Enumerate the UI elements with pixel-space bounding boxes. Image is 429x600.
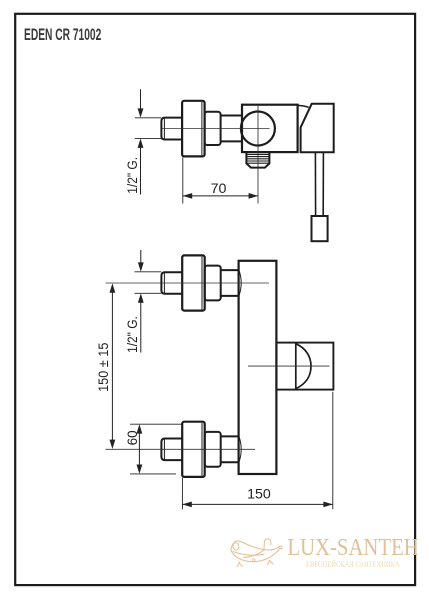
svg-text:EDEN CR 71002: EDEN CR 71002	[24, 25, 102, 43]
svg-text:ЕВРОПЕЙСКАЯ САНТЕХНИКА: ЕВРОПЕЙСКАЯ САНТЕХНИКА	[306, 559, 400, 569]
svg-text:60: 60	[125, 430, 140, 445]
svg-text:150: 150	[247, 486, 271, 502]
svg-text:150 ± 15: 150 ± 15	[95, 343, 110, 392]
svg-text:1/2" G.: 1/2" G.	[124, 316, 140, 353]
svg-text:70: 70	[211, 181, 227, 197]
svg-text:1/2" G.: 1/2" G.	[124, 157, 140, 194]
svg-text:LUX-SANTEH: LUX-SANTEH	[287, 533, 418, 560]
